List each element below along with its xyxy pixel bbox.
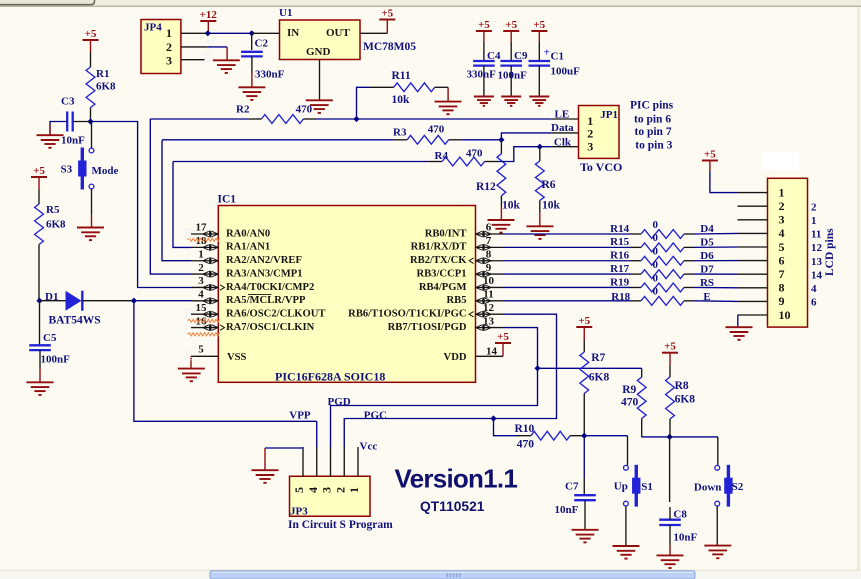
svg-text:+5: +5 bbox=[704, 148, 716, 160]
svg-text:10k: 10k bbox=[392, 94, 411, 106]
svg-text:JP1: JP1 bbox=[600, 109, 618, 121]
svg-text:R11: R11 bbox=[392, 70, 411, 82]
svg-text:RA2/AN2/VREF: RA2/AN2/VREF bbox=[226, 255, 302, 266]
svg-text:12: 12 bbox=[483, 302, 495, 314]
svg-text:R7: R7 bbox=[591, 352, 605, 364]
svg-text:C4: C4 bbox=[487, 50, 501, 62]
svg-text:2: 2 bbox=[198, 262, 204, 274]
svg-text:6: 6 bbox=[811, 297, 817, 309]
svg-text:IN: IN bbox=[287, 27, 299, 39]
svg-text:R5: R5 bbox=[46, 204, 60, 216]
svg-text:R17: R17 bbox=[610, 263, 629, 275]
svg-text:+5: +5 bbox=[505, 19, 517, 31]
svg-text:C2: C2 bbox=[255, 38, 269, 50]
svg-text:RB5: RB5 bbox=[446, 295, 466, 306]
svg-text:1: 1 bbox=[198, 248, 204, 260]
svg-text:JP4: JP4 bbox=[144, 22, 162, 34]
svg-text:PIC pins: PIC pins bbox=[630, 100, 674, 112]
svg-text:2: 2 bbox=[333, 487, 347, 493]
svg-text:PIC16F628A SOIC18: PIC16F628A SOIC18 bbox=[275, 369, 385, 383]
svg-text:6K8: 6K8 bbox=[96, 81, 116, 93]
svg-text:5: 5 bbox=[292, 487, 306, 493]
svg-text:Vcc: Vcc bbox=[360, 441, 378, 453]
svg-text:6K8: 6K8 bbox=[589, 372, 610, 384]
svg-text:+5: +5 bbox=[578, 315, 590, 327]
svg-text:10k: 10k bbox=[502, 200, 521, 212]
svg-text:S3: S3 bbox=[61, 164, 73, 176]
svg-text:C8: C8 bbox=[673, 509, 687, 521]
svg-text:to pin 3: to pin 3 bbox=[635, 139, 672, 151]
svg-text:14: 14 bbox=[486, 346, 498, 358]
svg-text:6: 6 bbox=[779, 253, 785, 267]
svg-text:R15: R15 bbox=[610, 236, 629, 248]
svg-text:10nF: 10nF bbox=[673, 531, 697, 543]
svg-text:IC1: IC1 bbox=[218, 194, 237, 206]
svg-text:0: 0 bbox=[653, 232, 659, 244]
svg-text:4: 4 bbox=[198, 289, 204, 301]
svg-text:RB1/RX/DT: RB1/RX/DT bbox=[411, 242, 467, 253]
svg-text:D7: D7 bbox=[700, 264, 714, 276]
svg-text:9: 9 bbox=[486, 262, 492, 274]
svg-text:7: 7 bbox=[779, 267, 785, 281]
svg-text:14: 14 bbox=[811, 269, 823, 281]
svg-text:+5: +5 bbox=[533, 19, 545, 31]
svg-text:R12: R12 bbox=[476, 181, 496, 193]
svg-text:RB3/CCP1: RB3/CCP1 bbox=[416, 268, 466, 279]
svg-text:7: 7 bbox=[486, 235, 492, 247]
svg-text:10nF: 10nF bbox=[61, 135, 85, 147]
svg-text:3: 3 bbox=[166, 53, 172, 67]
svg-text:15: 15 bbox=[196, 302, 208, 314]
svg-text:C9: C9 bbox=[514, 50, 528, 62]
svg-text:+5: +5 bbox=[381, 7, 393, 19]
svg-text:17: 17 bbox=[196, 222, 208, 234]
svg-text:0: 0 bbox=[653, 286, 659, 298]
svg-text:R14: R14 bbox=[610, 223, 629, 235]
svg-text:13: 13 bbox=[483, 315, 495, 327]
svg-text:RA1/AN1: RA1/AN1 bbox=[226, 242, 270, 253]
svg-text:13: 13 bbox=[811, 256, 823, 268]
svg-text:RA6/OSC2/CLKOUT: RA6/OSC2/CLKOUT bbox=[226, 309, 325, 320]
svg-text:0: 0 bbox=[653, 219, 659, 231]
svg-text:R10: R10 bbox=[515, 423, 535, 435]
svg-text:OUT: OUT bbox=[326, 27, 351, 39]
svg-text:PGC: PGC bbox=[364, 409, 387, 421]
svg-text:R3: R3 bbox=[393, 127, 407, 139]
svg-text:3: 3 bbox=[587, 140, 593, 154]
svg-text:RA7/OSC1/CLKIN: RA7/OSC1/CLKIN bbox=[226, 322, 315, 333]
svg-text:470: 470 bbox=[296, 104, 313, 116]
svg-text:R6: R6 bbox=[542, 179, 556, 191]
svg-text:VPP: VPP bbox=[289, 409, 311, 421]
svg-text:D4: D4 bbox=[700, 223, 714, 235]
svg-text:0: 0 bbox=[653, 272, 659, 284]
svg-text:R19: R19 bbox=[610, 276, 629, 288]
svg-text:R9: R9 bbox=[622, 384, 636, 396]
svg-text:1: 1 bbox=[166, 26, 172, 40]
svg-text:4: 4 bbox=[779, 226, 785, 240]
svg-text:5: 5 bbox=[779, 240, 785, 254]
svg-text:1: 1 bbox=[779, 185, 785, 199]
svg-text:1: 1 bbox=[347, 487, 361, 493]
svg-text:3: 3 bbox=[320, 487, 334, 493]
svg-text:R2: R2 bbox=[236, 104, 250, 116]
svg-text:QT110521: QT110521 bbox=[420, 499, 485, 514]
svg-text:11: 11 bbox=[483, 289, 493, 301]
svg-text:BAT54WS: BAT54WS bbox=[49, 315, 101, 327]
svg-text:S2: S2 bbox=[732, 481, 744, 493]
svg-text:+5: +5 bbox=[33, 165, 45, 177]
svg-text:+12: +12 bbox=[200, 9, 218, 21]
svg-text:D5: D5 bbox=[700, 236, 714, 248]
svg-text:18: 18 bbox=[196, 235, 208, 247]
svg-text:5: 5 bbox=[198, 344, 204, 356]
svg-text:C5: C5 bbox=[43, 332, 57, 344]
svg-text:9: 9 bbox=[779, 294, 785, 308]
svg-text:330nF: 330nF bbox=[255, 69, 285, 81]
svg-text:R8: R8 bbox=[675, 380, 689, 392]
svg-text:4: 4 bbox=[306, 487, 320, 493]
svg-text:RB2/TX/CK: RB2/TX/CK bbox=[410, 255, 467, 266]
svg-text:C3: C3 bbox=[61, 96, 75, 108]
svg-text:RB0/INT: RB0/INT bbox=[425, 228, 467, 239]
svg-text:to pin 6: to pin 6 bbox=[634, 114, 671, 126]
svg-text:to pin 7: to pin 7 bbox=[635, 126, 672, 138]
svg-text:R4: R4 bbox=[435, 150, 449, 162]
svg-text:E: E bbox=[703, 291, 710, 303]
svg-text:470: 470 bbox=[621, 397, 639, 409]
svg-text:C1: C1 bbox=[551, 51, 564, 63]
svg-text:LCD pins: LCD pins bbox=[824, 228, 836, 276]
svg-text:RB6/T1OSO/T1CKI/PGC: RB6/T1OSO/T1CKI/PGC bbox=[348, 309, 466, 320]
svg-text:R18: R18 bbox=[611, 291, 630, 303]
svg-text:2: 2 bbox=[779, 199, 785, 213]
svg-text:470: 470 bbox=[428, 124, 445, 136]
svg-text:10: 10 bbox=[483, 275, 495, 287]
svg-text:2: 2 bbox=[166, 40, 172, 54]
svg-text:D6: D6 bbox=[700, 250, 714, 262]
svg-text:Clk: Clk bbox=[554, 136, 572, 148]
svg-text:4: 4 bbox=[811, 283, 817, 295]
svg-text:MC78M05: MC78M05 bbox=[363, 41, 416, 53]
svg-text:JP3: JP3 bbox=[290, 506, 308, 518]
svg-text:RA5/MCLR/VPP: RA5/MCLR/VPP bbox=[226, 295, 306, 306]
svg-text:+5: +5 bbox=[497, 331, 509, 343]
svg-text:GND: GND bbox=[306, 46, 331, 58]
svg-text:6K8: 6K8 bbox=[46, 219, 66, 231]
svg-text:Mode: Mode bbox=[92, 165, 119, 177]
svg-text:3: 3 bbox=[779, 213, 785, 227]
svg-text:Up: Up bbox=[614, 481, 628, 493]
svg-text:470: 470 bbox=[466, 148, 483, 160]
svg-text:RS: RS bbox=[700, 277, 714, 289]
svg-text:Version1.1: Version1.1 bbox=[395, 463, 518, 493]
svg-text:6: 6 bbox=[486, 222, 492, 234]
svg-text:LE: LE bbox=[555, 109, 570, 121]
svg-text:VSS: VSS bbox=[227, 352, 247, 363]
svg-text:S1: S1 bbox=[641, 481, 653, 493]
svg-text:100uF: 100uF bbox=[551, 66, 581, 78]
svg-text:0: 0 bbox=[653, 259, 659, 271]
svg-text:VDD: VDD bbox=[444, 352, 467, 363]
svg-text:RB7/T1OSI/PGD: RB7/T1OSI/PGD bbox=[388, 322, 467, 333]
svg-text:RA3/AN3/CMP1: RA3/AN3/CMP1 bbox=[226, 268, 303, 279]
svg-text:0: 0 bbox=[653, 246, 659, 258]
svg-text:C7: C7 bbox=[565, 481, 579, 493]
svg-text:100nF: 100nF bbox=[41, 354, 71, 366]
svg-text:330nF: 330nF bbox=[467, 69, 497, 81]
svg-text:2: 2 bbox=[811, 201, 817, 213]
svg-text:R1: R1 bbox=[96, 68, 109, 80]
svg-text:12: 12 bbox=[811, 242, 823, 254]
svg-text:PGD: PGD bbox=[328, 396, 351, 408]
svg-text:RB4/PGM: RB4/PGM bbox=[419, 282, 467, 293]
svg-text:+5: +5 bbox=[664, 341, 676, 353]
svg-text:Down: Down bbox=[694, 482, 722, 494]
svg-text:To VCO: To VCO bbox=[580, 160, 622, 174]
svg-text:10nF: 10nF bbox=[555, 504, 579, 516]
svg-text:2: 2 bbox=[587, 126, 593, 140]
svg-text:U1: U1 bbox=[279, 7, 292, 19]
svg-text:RA0/AN0: RA0/AN0 bbox=[226, 228, 270, 239]
svg-text:In Circuit S Program: In Circuit S Program bbox=[288, 519, 393, 531]
svg-text:R16: R16 bbox=[610, 250, 629, 262]
svg-text:8: 8 bbox=[486, 248, 492, 260]
svg-text:470: 470 bbox=[517, 439, 535, 451]
svg-text:10k: 10k bbox=[542, 200, 561, 212]
svg-text:1: 1 bbox=[811, 215, 817, 227]
svg-text:3: 3 bbox=[198, 275, 204, 287]
svg-text:10: 10 bbox=[779, 308, 791, 322]
svg-text:11: 11 bbox=[811, 229, 821, 241]
svg-text:100nF: 100nF bbox=[498, 70, 528, 82]
svg-text:8: 8 bbox=[779, 281, 785, 295]
svg-text:Data: Data bbox=[551, 122, 574, 134]
svg-text:+5: +5 bbox=[478, 19, 490, 31]
svg-text:RA4/T0CKI/CMP2: RA4/T0CKI/CMP2 bbox=[226, 282, 314, 293]
svg-text:+: + bbox=[544, 47, 550, 59]
svg-text:6K8: 6K8 bbox=[675, 393, 696, 405]
svg-text:+5: +5 bbox=[85, 28, 97, 40]
